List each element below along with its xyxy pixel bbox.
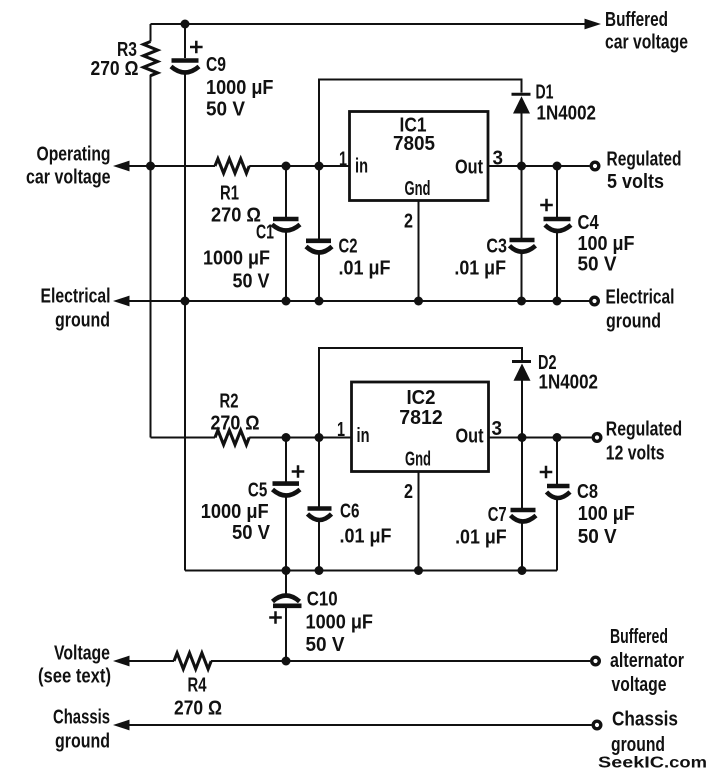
arrow voltage see text xyxy=(113,656,130,667)
svg-text:C3: C3 xyxy=(486,236,507,258)
junction dot C8 top xyxy=(553,433,562,442)
svg-text:R1: R1 xyxy=(220,183,239,205)
wire node bottom ground rail xyxy=(185,570,557,572)
svg-text:R2: R2 xyxy=(220,391,239,413)
svg-text:100 μF: 100 μF xyxy=(578,503,635,525)
svg-text:100 μF: 100 μF xyxy=(578,233,635,255)
wire D1 anode to output line xyxy=(521,113,523,166)
junction dot IC2 pin2 rail xyxy=(414,566,423,575)
capacitor C9 plates xyxy=(171,61,199,73)
svg-text:Electrical: Electrical xyxy=(606,286,675,308)
wire IC2 output line to regulated 12 V terminal xyxy=(489,437,592,439)
svg-text:Buffered: Buffered xyxy=(605,9,668,31)
svg-text:3: 3 xyxy=(493,148,504,170)
diode D1 xyxy=(512,94,531,113)
junction dot C6 bottom xyxy=(315,566,324,575)
resistor R4 xyxy=(174,653,211,669)
svg-text:ground: ground xyxy=(611,734,665,756)
junction dot C4 bottom xyxy=(553,297,562,306)
terminal electrical ground right xyxy=(591,297,599,305)
wire top buffered car voltage rail xyxy=(151,23,588,25)
svg-text:C10: C10 xyxy=(307,589,338,611)
svg-text:(see text): (see text) xyxy=(38,666,111,688)
junction dot C1 top xyxy=(282,162,291,171)
junction dot D2 output xyxy=(518,433,527,442)
svg-text:car voltage: car voltage xyxy=(605,32,688,54)
junction dot C10 bottom voltage line xyxy=(282,657,291,666)
svg-text:Operating: Operating xyxy=(37,144,111,166)
svg-text:50 V: 50 V xyxy=(578,526,618,548)
arrow electrical ground left xyxy=(113,296,130,307)
svg-text:1: 1 xyxy=(337,419,345,441)
wire IC1 pin 2 ground lead xyxy=(418,201,420,302)
svg-text:50 V: 50 V xyxy=(233,271,271,293)
arrow chassis ground left xyxy=(113,720,130,731)
wire electrical ground line xyxy=(116,300,590,302)
plus sign C9 polarity xyxy=(190,41,203,54)
wire C6 column xyxy=(318,438,320,571)
wire C8 column xyxy=(556,438,558,571)
svg-text:50 V: 50 V xyxy=(578,254,618,276)
plus sign C8 polarity xyxy=(540,466,553,479)
terminal buffered alternator voltage xyxy=(592,657,600,665)
svg-text:ground: ground xyxy=(55,731,110,753)
svg-text:270 Ω: 270 Ω xyxy=(211,412,260,434)
svg-text:ground: ground xyxy=(606,311,661,333)
svg-text:C5: C5 xyxy=(248,479,267,501)
svg-text:Voltage: Voltage xyxy=(54,643,110,665)
svg-text:50 V: 50 V xyxy=(306,634,346,656)
svg-text:C6: C6 xyxy=(340,501,360,523)
svg-text:ground: ground xyxy=(55,310,110,332)
terminal regulated 5 volts xyxy=(591,162,599,170)
svg-text:C9: C9 xyxy=(206,54,226,76)
junction dot D1 output xyxy=(517,162,526,171)
svg-text:1000 μF: 1000 μF xyxy=(201,501,269,523)
wire IC1 output line to regulated 5 V terminal xyxy=(488,165,590,167)
junction dot ground / column B xyxy=(181,297,190,306)
svg-text:C4: C4 xyxy=(578,212,600,234)
svg-text:7812: 7812 xyxy=(399,407,443,429)
svg-text:.01 μF: .01 μF xyxy=(455,527,507,549)
junction dot C4 top xyxy=(553,162,562,171)
wire operating car voltage line xyxy=(116,165,350,167)
svg-text:.01 μF: .01 μF xyxy=(339,258,391,280)
svg-text:50 V: 50 V xyxy=(232,522,271,544)
junction dot operating line / column A xyxy=(146,162,155,171)
svg-text:Electrical: Electrical xyxy=(41,286,111,308)
svg-text:Out: Out xyxy=(455,156,483,178)
wire R2 input line xyxy=(151,437,352,439)
svg-text:.01 μF: .01 μF xyxy=(340,526,392,548)
wire C3 column xyxy=(521,166,523,301)
wire column B (C9 / electrical ground vertical) xyxy=(184,24,186,571)
op-amp IC1 regulator box 7805 xyxy=(350,112,489,201)
junction dot C2 bottom xyxy=(315,297,324,306)
wire buffered alternator voltage line xyxy=(116,660,590,662)
svg-text:Gnd: Gnd xyxy=(405,178,431,200)
arrow buffered car voltage xyxy=(585,19,602,30)
diode D2 xyxy=(512,362,531,381)
wire C4 column xyxy=(556,166,558,301)
svg-text:1000 μF: 1000 μF xyxy=(206,77,274,99)
capacitor C5 plates xyxy=(273,484,301,496)
junction dot C6 top / bypass 2 xyxy=(315,433,324,442)
svg-text:5 volts: 5 volts xyxy=(607,171,664,193)
junction dot C1 bottom xyxy=(282,297,291,306)
svg-text:in: in xyxy=(357,425,370,447)
svg-text:3: 3 xyxy=(492,418,503,440)
plus sign C5 polarity xyxy=(292,465,305,478)
wire C1 column xyxy=(285,166,287,301)
svg-text:7805: 7805 xyxy=(393,133,435,155)
svg-text:270 Ω: 270 Ω xyxy=(211,204,261,226)
svg-text:Gnd: Gnd xyxy=(405,449,431,471)
terminal regulated 12 volts xyxy=(593,434,601,442)
wire C2 column xyxy=(318,166,320,301)
svg-text:270 Ω: 270 Ω xyxy=(91,58,139,80)
plus sign C10 polarity xyxy=(269,611,282,624)
svg-text:1000 μF: 1000 μF xyxy=(306,611,374,633)
capacitor C3 plates xyxy=(510,240,536,252)
svg-text:2: 2 xyxy=(404,481,413,503)
capacitor C10 plates xyxy=(273,596,302,606)
wire IC2 pin 2 ground lead xyxy=(418,472,420,571)
svg-text:270 Ω: 270 Ω xyxy=(174,698,222,720)
junction dot IC1 pin2 ground xyxy=(414,297,423,306)
wire IC1 input bypass to D1 cathode xyxy=(319,80,522,167)
svg-text:Regulated: Regulated xyxy=(607,149,682,171)
svg-text:1N4002: 1N4002 xyxy=(537,102,597,124)
wire D2 anode to output line xyxy=(521,381,523,438)
svg-text:IC2: IC2 xyxy=(407,387,436,409)
svg-text:C1: C1 xyxy=(256,222,274,244)
svg-text:C2: C2 xyxy=(339,236,358,258)
capacitor C8 plates xyxy=(547,486,571,498)
svg-text:1N4002: 1N4002 xyxy=(539,372,599,394)
svg-text:alternator: alternator xyxy=(610,650,684,672)
svg-text:Out: Out xyxy=(456,426,484,448)
junction dot top rail / C9 xyxy=(181,20,190,29)
terminal chassis ground right xyxy=(593,721,601,729)
wire IC2 input bypass to D2 cathode xyxy=(319,348,522,438)
junction dot C3 bottom xyxy=(517,297,526,306)
capacitor C4 plates xyxy=(544,219,572,231)
svg-text:12 volts: 12 volts xyxy=(606,443,665,465)
wire C10 column xyxy=(285,571,287,662)
resistor R3 xyxy=(144,42,158,76)
svg-text:Regulated: Regulated xyxy=(606,418,682,440)
junction dot C5 top xyxy=(282,433,291,442)
svg-text:voltage: voltage xyxy=(612,674,667,696)
capacitor C7 plates xyxy=(511,510,537,522)
capacitor C1 plates xyxy=(272,219,300,231)
arrow operating car voltage xyxy=(113,161,130,172)
svg-text:1000 μF: 1000 μF xyxy=(203,248,270,270)
svg-text:SeekIC: SeekIC xyxy=(598,755,664,772)
wire chassis ground line xyxy=(116,724,592,726)
op-amp IC2 regulator box 7812 xyxy=(352,382,489,472)
plus sign C4 polarity xyxy=(540,199,553,212)
svg-text:C7: C7 xyxy=(488,504,507,526)
svg-text:D1: D1 xyxy=(536,82,554,104)
svg-text:Buffered: Buffered xyxy=(610,626,668,648)
junction dot C2 top / bypass xyxy=(315,162,324,171)
svg-text:Chassis: Chassis xyxy=(53,707,110,729)
junction dot C10 rail xyxy=(282,566,291,575)
svg-text:50 V: 50 V xyxy=(206,99,246,121)
svg-text:2: 2 xyxy=(404,211,413,233)
capacitor C2 plates xyxy=(306,241,332,253)
resistor R2 xyxy=(215,430,249,444)
wire left column A (R3 / operating voltage to R2 input) xyxy=(150,24,152,438)
capacitor C6 plates xyxy=(308,509,332,521)
svg-text:.01 μF: .01 μF xyxy=(454,258,506,280)
svg-text:C8: C8 xyxy=(577,481,598,503)
svg-text:1: 1 xyxy=(339,148,347,170)
svg-text:.com: .com xyxy=(664,755,707,772)
resistor R1 xyxy=(215,159,249,173)
svg-text:R4: R4 xyxy=(188,675,208,697)
svg-text:Chassis: Chassis xyxy=(612,709,678,731)
wire C5 column xyxy=(285,438,287,571)
junction dot C7 bottom xyxy=(518,566,527,575)
svg-text:in: in xyxy=(355,156,368,178)
svg-text:car voltage: car voltage xyxy=(26,167,111,189)
wire C7 column xyxy=(521,438,523,571)
